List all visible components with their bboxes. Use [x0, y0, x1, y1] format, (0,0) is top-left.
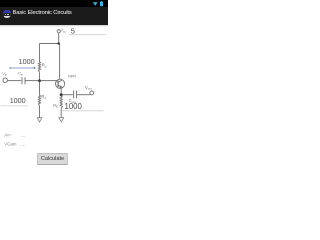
svg-text:VGain: VGain — [4, 141, 17, 146]
svg-text:R1: R1 — [42, 62, 47, 68]
svg-text:R2: R2 — [41, 94, 46, 100]
svg-text:Vin: Vin — [2, 72, 7, 77]
svg-text:RE: RE — [53, 103, 58, 109]
svg-text:Vout: Vout — [85, 85, 92, 91]
svg-text:....: .... — [20, 132, 25, 137]
svg-text:....: .... — [20, 141, 25, 146]
svg-text:1000: 1000 — [10, 96, 26, 105]
svg-text:NPN: NPN — [68, 75, 76, 79]
svg-text:1000: 1000 — [65, 102, 83, 111]
svg-text:5: 5 — [71, 26, 75, 35]
svg-text:Av=: Av= — [4, 132, 12, 137]
svg-text:1000: 1000 — [19, 57, 35, 66]
svg-text:Cin: Cin — [18, 72, 23, 77]
svg-text:Vcc: Vcc — [61, 29, 67, 34]
